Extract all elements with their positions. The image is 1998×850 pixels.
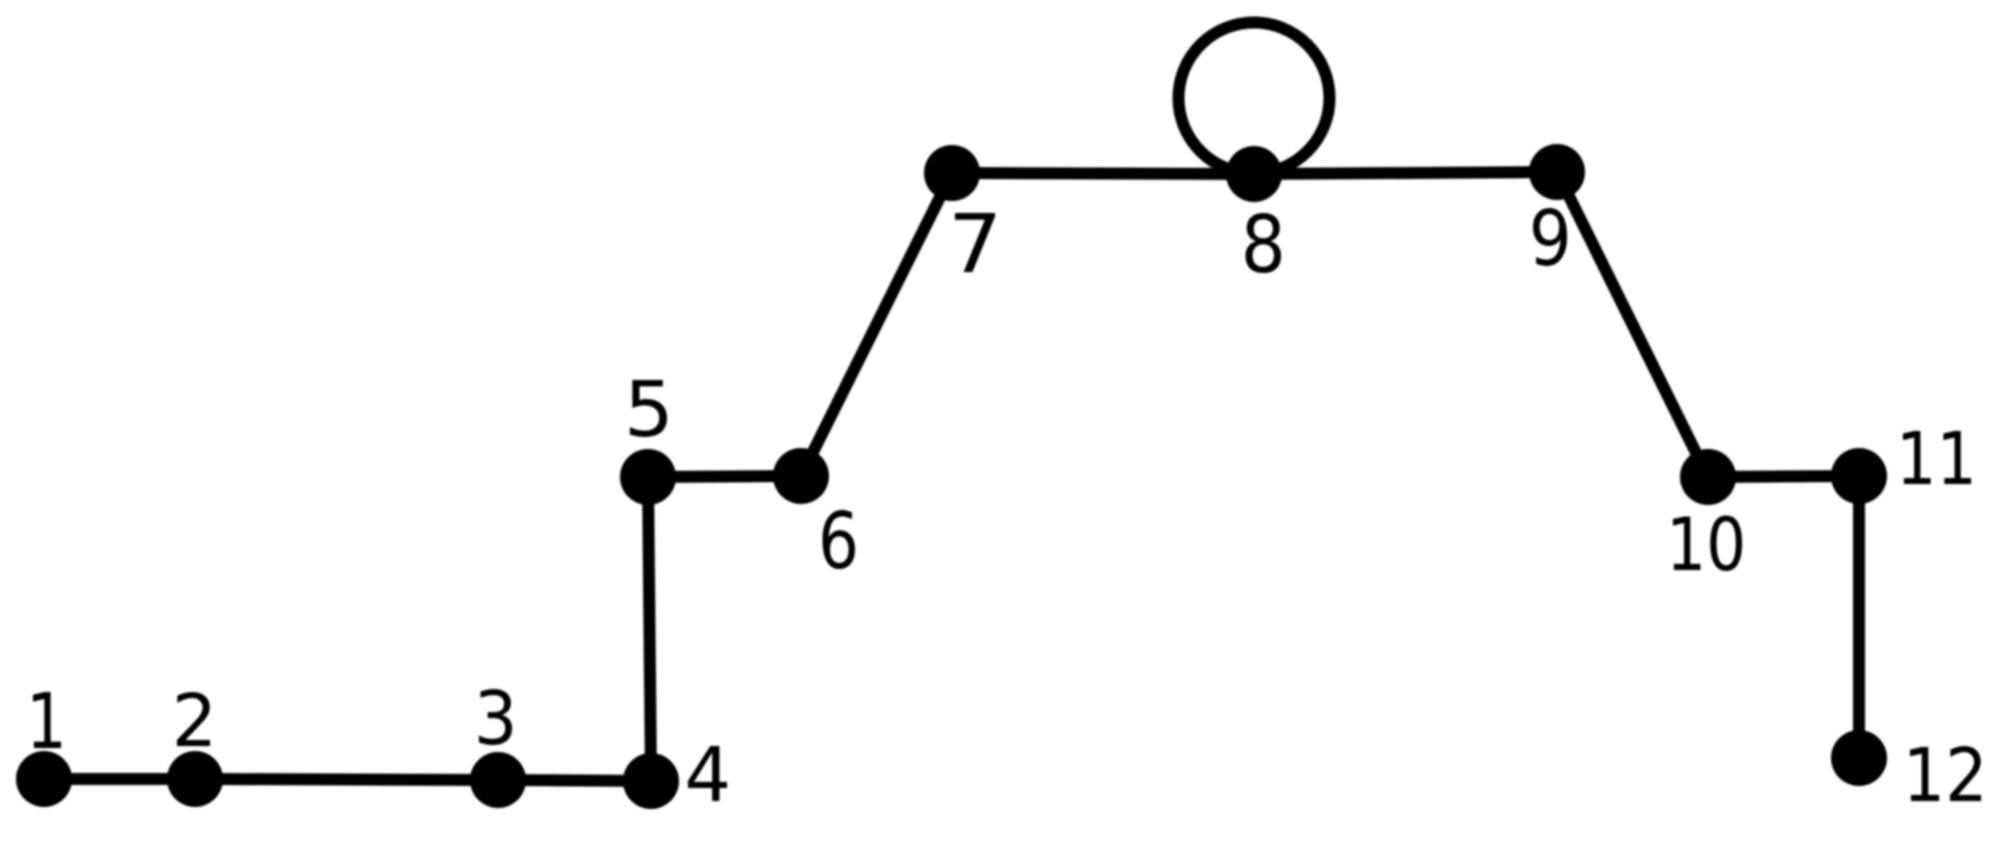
node 1 [16,751,72,807]
node 12 [1831,730,1887,786]
label 7 [955,213,995,272]
label 11 [1903,431,1971,484]
wire edge 11-12 [1853,476,1865,758]
node 8 [1226,146,1282,202]
wire edge 2-3 [195,779,498,780]
label 5 [630,380,667,437]
wire edge 7-8 [952,173,1254,174]
wire edge 4-5 [648,477,651,781]
node 10 [1680,449,1736,505]
wire edge 8-9 [1254,172,1557,174]
label 12 [1910,746,1981,801]
node 11 [1831,448,1887,504]
node 7 [924,145,980,201]
node 9 [1529,144,1585,200]
wire edge 1-2 [44,773,195,785]
label 9 [1533,208,1567,266]
label 4 [688,746,727,801]
wire edge 9-10 [1557,172,1708,477]
node 4 [623,753,679,809]
wire edge 10-11 [1708,476,1859,477]
label 3 [479,689,512,745]
wire self-loop at node 8 [1179,23,1330,174]
label 6 [822,510,854,569]
label 1 [33,692,61,748]
label 8 [1246,213,1281,273]
node 6 [773,448,829,504]
wire edge 3-4 [498,780,651,781]
label 2 [177,692,210,746]
label 10 [1673,515,1742,571]
wire edge 5-6 [648,476,801,477]
wire edge 6-7 [801,173,952,476]
node 2 [167,751,223,807]
node 3 [470,752,526,808]
node 5 [620,449,676,505]
